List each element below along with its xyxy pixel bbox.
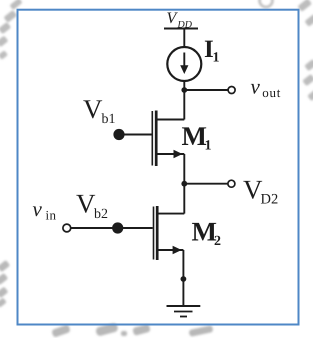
transistor M2 channel line	[156, 206, 159, 260]
ground	[167, 306, 201, 317]
M2 gate lead	[71, 227, 153, 229]
label vout	[251, 75, 282, 101]
vin open terminal	[63, 224, 71, 232]
VDD supply bar	[164, 28, 198, 30]
watermark top-right	[260, 0, 319, 27]
transistor M1 gate line	[151, 111, 153, 166]
svg-text:in: in	[46, 207, 57, 222]
label VDD	[167, 10, 193, 30]
vout open terminal	[228, 87, 235, 94]
VD2 open terminal	[228, 180, 235, 187]
svg-text:D2: D2	[261, 192, 279, 208]
svg-text:b2: b2	[94, 207, 108, 222]
transistor M2 gate line	[153, 207, 155, 260]
wire VD2 node to VD2 terminal	[184, 183, 227, 185]
svg-text:V: V	[76, 188, 96, 218]
wire I1 bottom to output node	[183, 81, 185, 120]
svg-text:v: v	[33, 197, 43, 221]
svg-text:b1: b1	[102, 112, 116, 127]
svg-text:1: 1	[205, 139, 212, 154]
wire VDD bar to I1 top	[183, 29, 185, 47]
label M2	[192, 217, 222, 249]
svg-text:1: 1	[213, 51, 220, 66]
label VD2	[243, 175, 278, 208]
watermark right-middle	[302, 59, 319, 101]
M1 drain lead	[156, 119, 184, 121]
svg-text:out: out	[262, 85, 281, 100]
watermark top-left	[0, 0, 23, 60]
wire M2 source to ground	[182, 250, 184, 306]
svg-text:DD: DD	[177, 20, 193, 31]
svg-text:M: M	[182, 121, 207, 151]
M2 source lead	[157, 249, 183, 251]
watermark bottom-left	[0, 260, 10, 308]
Vb2 bias terminal dot	[112, 222, 123, 233]
svg-text:2: 2	[214, 234, 221, 249]
watermark bottom strip	[51, 322, 213, 338]
wire M1 source down to M2 drain	[183, 154, 185, 214]
label vin	[33, 197, 57, 222]
Vb1 bias terminal dot	[113, 129, 124, 140]
transistor M1 channel line	[155, 111, 158, 167]
label I1	[204, 36, 220, 66]
M2 source arrowhead	[173, 246, 182, 254]
M1 gate lead	[119, 134, 152, 136]
M1 source arrowhead	[174, 150, 183, 158]
wire output node to vout terminal	[184, 89, 228, 91]
svg-text:v: v	[251, 75, 261, 99]
label Vb1	[83, 94, 116, 127]
node dot below I1 (vout node)	[181, 87, 187, 93]
I1 arrowhead	[180, 65, 188, 74]
M1 source lead	[156, 153, 184, 155]
label Vb2	[76, 188, 108, 222]
M2 drain lead	[157, 213, 184, 215]
I1 arrow	[183, 53, 185, 68]
node dot VD2	[181, 181, 187, 187]
current source I1	[167, 47, 201, 81]
node dot above ground	[181, 276, 187, 282]
svg-text:V: V	[83, 94, 103, 124]
label M1	[182, 121, 212, 153]
